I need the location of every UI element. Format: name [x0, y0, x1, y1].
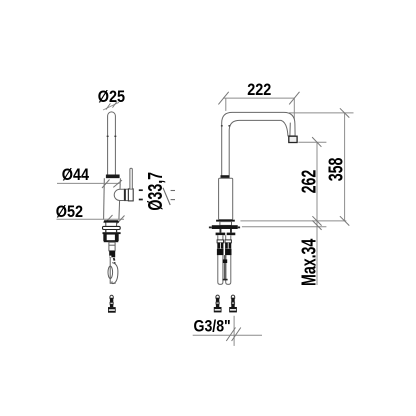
svg-text:Ø25: Ø25: [98, 88, 126, 106]
spout pipe: [108, 112, 116, 175]
base flange: [103, 220, 119, 222]
svg-text:358: 358: [324, 157, 347, 181]
svg-text:Ø44: Ø44: [62, 166, 90, 184]
stem right: [220, 222, 232, 226]
handle valve rounded cap: [114, 189, 124, 200]
lock ring: [103, 232, 121, 234]
leader O25: [103, 102, 119, 110]
washer right: [216, 233, 226, 236]
mounting nut: [104, 234, 119, 240]
body right: [219, 178, 233, 219]
svg-text:G3/8": G3/8": [194, 318, 231, 336]
ext lines 222: [226, 98, 294, 121]
spout tube: [222, 112, 295, 178]
aerator: [289, 136, 297, 142]
riser seam nubs: [221, 125, 230, 127]
svg-text:Ø33,7: Ø33,7: [143, 172, 166, 211]
358 ext line from spout top: [289, 112, 354, 114]
deck lines: [240, 221, 346, 227]
supply tubes: [218, 235, 231, 284]
neck upper: [105, 223, 107, 227]
hose fitting: [113, 258, 116, 261]
tube collars: [217, 240, 223, 243]
neck columns right: [220, 229, 222, 233]
shank: [109, 242, 115, 251]
hose nuts dark: [217, 243, 223, 249]
fixing screws right: [214, 295, 222, 312]
svg-text:262: 262: [297, 170, 320, 194]
escutcheon right: [212, 225, 238, 229]
dim 358: [344, 113, 346, 221]
base disc: [103, 226, 121, 229]
collar: [106, 175, 120, 179]
svg-text:Ø52: Ø52: [56, 203, 83, 221]
fixing screw left: [108, 295, 116, 312]
spout bore seam: [289, 123, 291, 136]
pipe seam nubs: [107, 135, 117, 137]
svg-text:Max.34: Max.34: [297, 238, 320, 286]
neck lower: [105, 230, 107, 233]
svg-text:222: 222: [247, 81, 271, 99]
handle lever: [130, 168, 132, 189]
hose block: [109, 251, 115, 257]
handle cap: [128, 189, 133, 201]
hose down: [110, 257, 115, 283]
hose curl: [112, 263, 118, 284]
flange right: [216, 220, 235, 222]
collar right: [221, 175, 230, 178]
dim 262: [298, 141, 326, 143]
center rod: [224, 255, 225, 279]
hose loop ellipse: [108, 266, 113, 278]
body: [104, 178, 121, 219]
hose nuts dark 2: [217, 249, 224, 255]
handle mid section: [124, 189, 128, 200]
